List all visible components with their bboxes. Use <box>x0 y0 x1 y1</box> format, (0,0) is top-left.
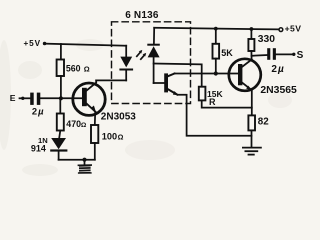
optocoupler U1 6N136 dashed box <box>112 22 191 104</box>
photodiode (inside 6N136) <box>147 28 160 83</box>
wire collector to capacitor C2 <box>252 54 268 57</box>
diode D1 1N914 <box>50 138 67 160</box>
light arrows <box>137 50 146 59</box>
ground right <box>243 148 261 155</box>
resistor 82 <box>248 115 255 130</box>
svg-text:82: 82 <box>258 117 269 128</box>
svg-text:2µ: 2µ <box>32 106 44 117</box>
ground left (hatched block) <box>78 165 92 173</box>
node E dot <box>21 97 24 100</box>
svg-text:S: S <box>297 50 304 61</box>
svg-text:560: 560 <box>66 64 81 74</box>
node +5V left dot <box>43 42 47 46</box>
wire 15K bottom to emitter <box>202 100 252 107</box>
svg-text:914: 914 <box>31 143 46 153</box>
node +5V right open dot <box>279 28 283 32</box>
wire ground stub <box>84 160 86 165</box>
svg-text:2N3565: 2N3565 <box>260 85 297 96</box>
transistor Q2 opto output <box>164 73 179 95</box>
node S dot <box>292 53 295 56</box>
wire 560 bottom lead <box>60 76 62 98</box>
svg-text:6 N136: 6 N136 <box>125 10 159 21</box>
wire LED cathode to Q1 collector <box>96 79 126 81</box>
wire capacitor to S <box>276 53 293 55</box>
capacitor C2 2u <box>267 48 276 60</box>
wire rail to LED <box>125 46 127 57</box>
wire 560 top lead <box>60 44 62 60</box>
wire 82 bottom lead <box>251 130 253 146</box>
transistor Q1 2N3053 <box>73 80 105 125</box>
node 5K base junction dot <box>214 71 218 75</box>
wire +5V rail right <box>154 28 279 30</box>
diode LED (inside 6N136) <box>119 57 133 81</box>
wire photodiode anode to 15K (upper) <box>154 64 202 87</box>
svg-text:2N3053: 2N3053 <box>101 111 136 122</box>
svg-text:330: 330 <box>258 34 275 45</box>
resistor 330 <box>248 39 254 51</box>
wire +5V rail left <box>45 44 127 46</box>
capacitor C1 2u <box>30 93 40 105</box>
resistor 470 <box>57 114 64 131</box>
wire bottom left ground bus <box>59 159 95 161</box>
resistor 100 <box>91 125 98 143</box>
wire 100 bottom lead <box>94 143 96 160</box>
wire E to capacitor <box>20 97 31 99</box>
wire opto collector to Q3 base <box>175 73 239 75</box>
svg-text:+5V: +5V <box>285 24 302 34</box>
svg-text:470: 470 <box>66 119 81 129</box>
resistor 5K <box>213 44 220 59</box>
node base junction dot <box>59 96 63 100</box>
svg-text:+5V: +5V <box>24 39 42 48</box>
node 5K top dot <box>214 27 218 31</box>
svg-text:Ω: Ω <box>81 122 87 129</box>
resistor 560 <box>57 60 64 77</box>
svg-text:R: R <box>209 97 216 107</box>
node ground junction dot <box>82 158 86 162</box>
wire 5K bottom lead <box>215 59 217 74</box>
svg-text:Ω: Ω <box>84 65 90 74</box>
wire 470 top lead <box>59 98 61 113</box>
transistor Q3 2N3565 <box>229 59 261 116</box>
svg-text:100: 100 <box>102 131 117 141</box>
svg-text:Ω: Ω <box>118 133 124 142</box>
node 330 top dot <box>250 27 254 31</box>
wire 5K top lead <box>215 29 217 44</box>
wire opto base <box>154 82 165 84</box>
resistor 15K R <box>199 87 206 101</box>
svg-text:5K: 5K <box>221 48 233 58</box>
wire capacitor to base node <box>40 97 82 99</box>
wire 330 top lead <box>250 29 252 39</box>
wire 330 bottom to collector <box>250 51 252 59</box>
wire 470 bottom lead <box>59 131 60 139</box>
svg-text:E: E <box>10 93 16 103</box>
wire opto emitter down and to ground bus <box>179 95 252 136</box>
svg-text:2µ: 2µ <box>271 64 284 75</box>
